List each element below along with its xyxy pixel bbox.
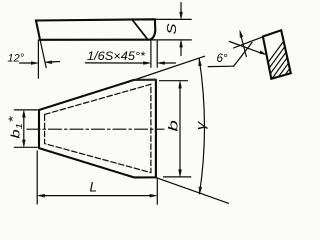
6 deg descending line with arrow	[230, 42, 267, 55]
b extension line top	[160, 80, 188, 82]
6 deg steep leg with arrow	[234, 30, 252, 66]
chamfer leader underline with arrow	[86, 62, 151, 65]
svg-text:b: b	[167, 120, 181, 132]
chamfer extension line right	[156, 41, 158, 67]
12 deg slanted extension line	[40, 40, 46, 68]
plan view outline	[39, 80, 156, 178]
chamfer edge line	[133, 20, 148, 39]
blade section block	[263, 30, 291, 79]
S dim lower arrow	[180, 40, 183, 56]
center line	[27, 128, 164, 130]
b1 extension line top	[14, 109, 37, 111]
6 deg face extension line	[234, 37, 263, 48]
12 deg left arrow	[20, 62, 39, 65]
chamfer right arrow	[157, 62, 175, 65]
b1 extension line bottom	[14, 146, 37, 148]
12 deg vertical reference line	[37, 40, 39, 78]
svg-text:L: L	[90, 180, 98, 195]
rake face thin line	[134, 56, 205, 80]
svg-text:b1*: b1*	[6, 116, 24, 138]
gamma arc top arrow	[199, 59, 202, 66]
12 deg right arrow	[45, 61, 60, 64]
side view outline	[36, 19, 155, 40]
gamma arc bottom arrow	[199, 187, 202, 194]
L extension line left	[36, 151, 38, 204]
L dimension line with arrows	[38, 194, 158, 197]
S top extension line	[156, 18, 192, 20]
b extension line bottom	[164, 176, 191, 178]
S bottom extension line	[151, 39, 191, 41]
plan top chamfer edge thin	[134, 79, 156, 81]
S dim upper arrow	[180, 3, 183, 20]
L extension line right	[156, 179, 158, 204]
b dimension line with arrows	[179, 81, 182, 177]
gamma arc	[199, 59, 204, 194]
svg-text:6°: 6°	[217, 53, 228, 65]
b1 dimension line with arrows	[22, 110, 25, 147]
svg-text:12°: 12°	[8, 52, 25, 64]
plan view hidden contour dashed	[45, 84, 151, 172]
chamfer extension line left	[150, 41, 152, 67]
bottom edge extension slanted	[156, 178, 229, 204]
svg-text:S: S	[165, 23, 179, 35]
svg-text:1/6S×45°*: 1/6S×45°*	[87, 49, 145, 63]
6 deg horizontal leg	[208, 65, 234, 67]
svg-text:γ: γ	[193, 120, 208, 130]
